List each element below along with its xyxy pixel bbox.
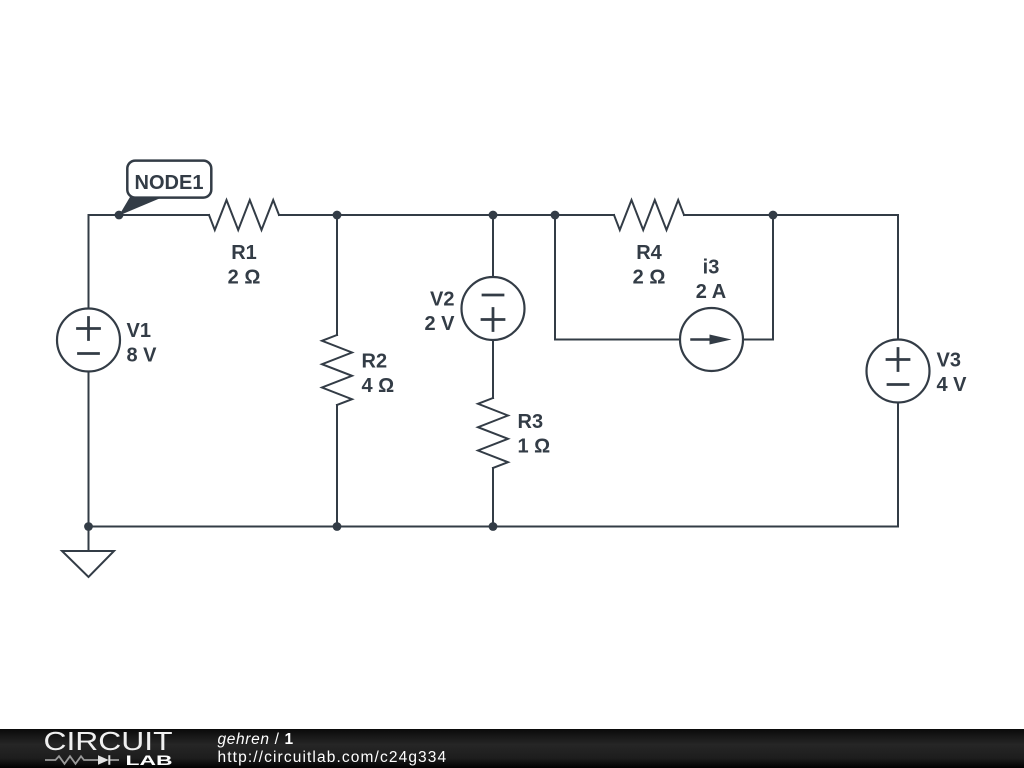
svg-text:V3: V3 — [937, 350, 961, 372]
svg-text:2 V: 2 V — [424, 313, 455, 335]
svg-text:V1: V1 — [127, 320, 151, 342]
svg-text:2 Ω: 2 Ω — [633, 267, 666, 289]
svg-text:LAB: LAB — [126, 753, 173, 768]
svg-text:CIRCUIT: CIRCUIT — [44, 729, 173, 756]
svg-text:4 Ω: 4 Ω — [362, 375, 395, 397]
svg-text:1 Ω: 1 Ω — [518, 436, 551, 458]
svg-text:i3: i3 — [703, 257, 720, 279]
svg-text:R2: R2 — [362, 351, 388, 373]
svg-text:2 Ω: 2 Ω — [228, 267, 261, 289]
svg-text:NODE1: NODE1 — [135, 172, 204, 194]
svg-text:R1: R1 — [231, 242, 257, 264]
svg-text:R3: R3 — [518, 411, 544, 433]
svg-text:2 A: 2 A — [696, 281, 726, 303]
svg-text:8 V: 8 V — [127, 345, 158, 367]
svg-text:V2: V2 — [430, 289, 454, 311]
svg-text:4 V: 4 V — [937, 374, 968, 396]
svg-text:R4: R4 — [636, 242, 662, 264]
